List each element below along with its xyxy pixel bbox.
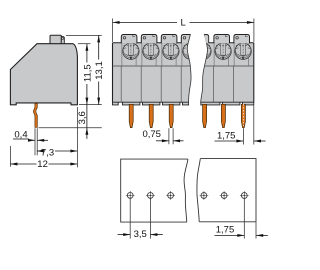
svg-text:7,3: 7,3 bbox=[41, 147, 54, 158]
svg-text:13,1: 13,1 bbox=[94, 61, 105, 80]
svg-text:11,5: 11,5 bbox=[82, 64, 93, 82]
svg-text:L: L bbox=[181, 18, 186, 29]
svg-text:12: 12 bbox=[37, 159, 48, 170]
svg-text:3,5: 3,5 bbox=[134, 229, 147, 240]
svg-text:1,75: 1,75 bbox=[217, 131, 236, 142]
svg-text:1,75: 1,75 bbox=[216, 225, 235, 236]
svg-text:3,6: 3,6 bbox=[77, 111, 88, 124]
svg-text:0,75: 0,75 bbox=[142, 129, 161, 140]
svg-text:0,4: 0,4 bbox=[14, 129, 27, 140]
